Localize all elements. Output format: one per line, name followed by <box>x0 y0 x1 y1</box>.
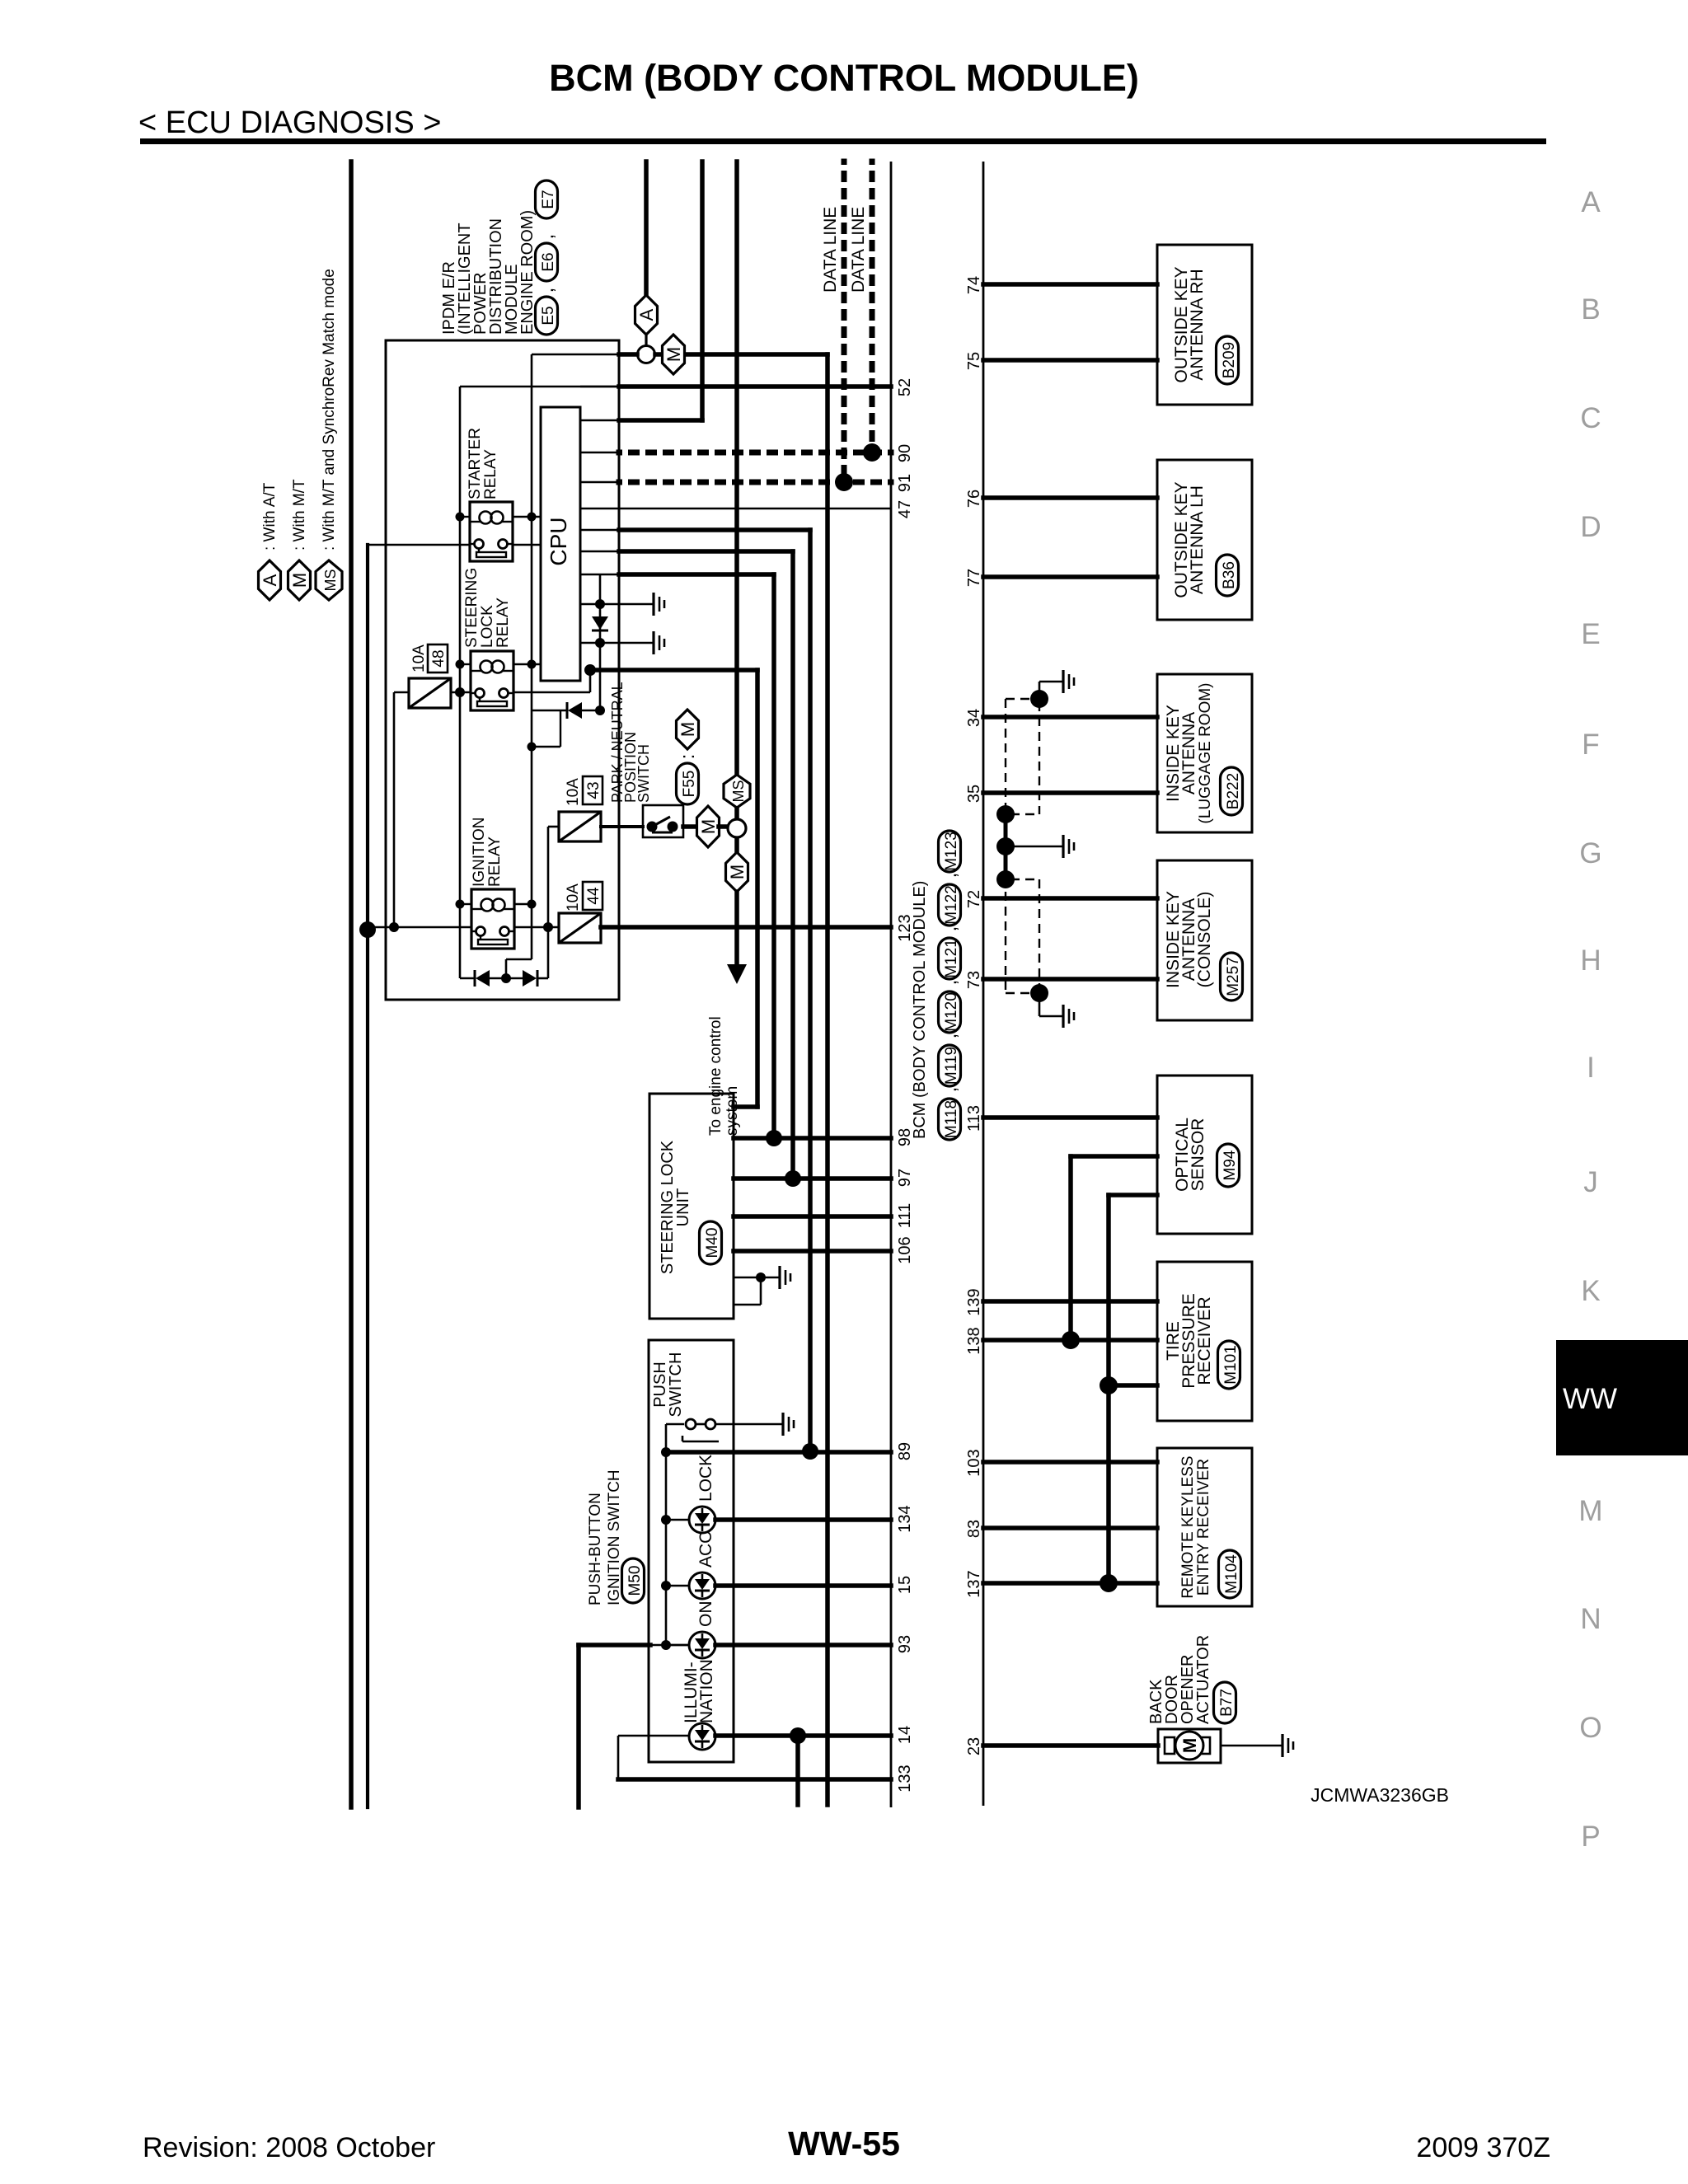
svg-text:111: 111 <box>896 1203 914 1228</box>
svg-text:M122: M122 <box>943 885 960 925</box>
svg-text:M104: M104 <box>1223 1554 1240 1594</box>
diode D1 (left-pointing) <box>476 970 490 987</box>
svg-text:48: 48 <box>430 649 448 667</box>
svg-text:ON: ON <box>696 1601 715 1628</box>
svg-text:SWITCH: SWITCH <box>667 1352 685 1418</box>
hexagon M on down-rail <box>726 852 748 892</box>
sidebar WW tab <box>1556 1340 1688 1455</box>
INSIDE KEY ANTENNA (CONSOLE) box (M257) <box>1157 860 1252 1020</box>
svg-text:E5: E5 <box>540 306 557 325</box>
fuse 48 wiring <box>394 691 409 694</box>
wire pin 77 <box>983 574 1157 579</box>
svg-text:43: 43 <box>585 781 603 799</box>
svg-text:IGNITION: IGNITION <box>471 818 488 887</box>
connector E5 <box>536 297 558 335</box>
branch rail x1004 (M) <box>825 354 830 1805</box>
svg-text:M: M <box>698 819 719 834</box>
svg-text:90: 90 <box>896 444 914 462</box>
BCM left bus <box>890 162 893 1807</box>
svg-text:D: D <box>1580 511 1601 543</box>
connector F55 : M <box>677 710 699 749</box>
push-button ignition switch box <box>649 1340 734 1762</box>
shield middle joint <box>1004 814 1008 879</box>
svg-text:PUSH-BUTTON: PUSH-BUTTON <box>587 1493 604 1605</box>
svg-text:74: 74 <box>965 276 983 294</box>
svg-text:M119: M119 <box>943 1047 960 1085</box>
svg-text:M121: M121 <box>943 939 960 978</box>
wire pin 90 (striped) <box>580 452 619 454</box>
park/neutral position switch box <box>643 805 683 837</box>
fuse43 feed rail x665 <box>547 827 550 927</box>
svg-text:RELAY: RELAY <box>495 598 512 648</box>
push switch common rail x808 <box>666 1423 684 1426</box>
BCM right bus <box>982 162 985 1806</box>
OUTSIDE KEY ANTENNA LH box (B36) <box>1157 460 1252 620</box>
svg-text:NATION: NATION <box>697 1659 716 1723</box>
svg-text:M118: M118 <box>943 1100 960 1138</box>
shield bottom ground <box>1030 984 1048 1002</box>
connector circle <box>645 335 647 346</box>
svg-text:138: 138 <box>965 1327 983 1354</box>
svg-text:N: N <box>1580 1603 1601 1635</box>
wire pin 74 <box>983 282 1157 287</box>
svg-text:ANTENNA RH: ANTENNA RH <box>1188 269 1207 380</box>
antenna shield dashed rail 2 <box>1039 702 1040 814</box>
wire pin 133 <box>618 1777 891 1782</box>
svg-text:ENTRY RECEIVER: ENTRY RECEIVER <box>1195 1459 1212 1596</box>
connector E6 <box>536 243 558 281</box>
svg-text:B209: B209 <box>1221 342 1238 378</box>
shield dashed horizontals <box>1006 698 1032 700</box>
svg-text:M120: M120 <box>943 992 960 1032</box>
svg-text:,: , <box>939 873 961 879</box>
wire pin 73 <box>983 977 1157 982</box>
svg-text:103: 103 <box>965 1449 983 1476</box>
svg-text:(LUGGAGE ROOM): (LUGGAGE ROOM) <box>1197 682 1214 823</box>
wire pin 52 <box>619 384 891 389</box>
wire pin 98 <box>734 1136 891 1141</box>
svg-text:IGNITION SWITCH: IGNITION SWITCH <box>606 1469 623 1605</box>
svg-text:,: , <box>939 980 961 986</box>
svg-text:E7: E7 <box>540 190 557 209</box>
svg-text:CPU: CPU <box>546 517 571 565</box>
svg-text:91: 91 <box>896 474 914 492</box>
svg-text:M123: M123 <box>943 832 960 871</box>
svg-text:F55: F55 <box>681 771 698 798</box>
starter relay contact row wire <box>368 544 470 546</box>
svg-text:DATA LINE: DATA LINE <box>849 207 868 293</box>
IPDM E/R box <box>386 340 619 1000</box>
steering relay contact row to x715 <box>513 691 590 694</box>
svg-text:I: I <box>1587 1052 1595 1084</box>
svg-text:,: , <box>939 1033 961 1039</box>
feed rail to park/neutral junction <box>734 162 739 776</box>
tire pressure stub <box>1109 1383 1157 1388</box>
svg-text:,: , <box>939 926 961 932</box>
svg-text:C: C <box>1580 402 1601 434</box>
svg-text:E: E <box>1581 618 1600 650</box>
svg-text:M: M <box>663 347 684 362</box>
svg-text:73: 73 <box>965 971 983 989</box>
svg-text:72: 72 <box>965 890 983 908</box>
rail x702 down <box>576 1645 581 1807</box>
wire pin 97 <box>734 1176 891 1181</box>
svg-text:M257: M257 <box>1225 957 1242 996</box>
STEERING LOCK UNIT box <box>649 1094 734 1319</box>
svg-text:35: 35 <box>965 785 983 803</box>
svg-text:M: M <box>1578 1495 1602 1527</box>
REMOTE KEYLESS ENTRY RECEIVER box (M104) <box>1157 1448 1252 1606</box>
fuse 48 feed rail x478 <box>393 692 396 927</box>
left feed rail (starter contact to pin 133 area) <box>366 545 369 1807</box>
svg-text:MS: MS <box>730 780 747 803</box>
svg-text:O: O <box>1579 1712 1601 1744</box>
svg-text:ANTENNA: ANTENNA <box>1179 712 1198 794</box>
svg-text:M94: M94 <box>1221 1150 1239 1180</box>
wire pin 134 <box>715 1517 891 1522</box>
ground tap 1 <box>580 603 654 605</box>
connector E7 <box>536 180 558 218</box>
wire pin 113 <box>983 1115 1157 1120</box>
svg-text:H: H <box>1580 944 1601 977</box>
svg-text:G: G <box>1579 837 1601 869</box>
svg-text:: With M/T: : With M/T <box>291 479 308 551</box>
wire pin 137 <box>983 1581 1157 1586</box>
svg-text:75: 75 <box>965 352 983 370</box>
legend hexagon A : With A/T <box>259 560 281 600</box>
svg-text:DATA LINE: DATA LINE <box>821 207 840 293</box>
svg-text:LOCK: LOCK <box>696 1455 715 1502</box>
svg-text:137: 137 <box>965 1570 983 1597</box>
bundle wire 1 (y643 to x983) <box>580 529 619 532</box>
svg-text:J: J <box>1583 1166 1598 1198</box>
svg-text:SENSOR: SENSOR <box>1189 1118 1207 1192</box>
legend hexagon M : With M/T <box>288 560 311 600</box>
wire pin 14 <box>715 1733 891 1738</box>
hexagon MS below rail <box>724 775 750 808</box>
wire pin 34 <box>983 715 1157 719</box>
wire pin 111 <box>734 1214 891 1219</box>
svg-text:A: A <box>1581 186 1601 218</box>
svg-text:10A: 10A <box>565 778 582 806</box>
svg-text:SWITCH: SWITCH <box>635 744 652 803</box>
svg-text:(CONSOLE): (CONSOLE) <box>1195 892 1214 988</box>
svg-text:ENGINE ROOM): ENGINE ROOM) <box>518 210 537 335</box>
diode D2 (right-pointing) <box>523 970 537 987</box>
svg-text:76: 76 <box>965 490 983 508</box>
hexagon M on wire y430 <box>663 335 685 374</box>
svg-text:23: 23 <box>965 1737 983 1755</box>
svg-text:52: 52 <box>896 378 914 396</box>
junction dot diode row <box>501 973 511 983</box>
svg-text:JCMWA3236GB: JCMWA3236GB <box>1311 1784 1449 1806</box>
svg-text:Revision: 2008 October: Revision: 2008 October <box>143 2132 435 2163</box>
wire pin 139 <box>983 1299 1157 1304</box>
fuse 43 wiring <box>548 826 559 828</box>
wire pin 138 <box>983 1338 1157 1343</box>
connector M50 <box>622 1558 645 1603</box>
svg-text:M101: M101 <box>1222 1345 1240 1385</box>
svg-text:A: A <box>636 308 657 321</box>
wire pin 106 <box>734 1249 891 1254</box>
wire pin 89 <box>666 1450 891 1455</box>
svg-text:K: K <box>1581 1275 1600 1307</box>
steering relay coil terminals <box>460 663 471 665</box>
wire pin 35 <box>983 790 1157 795</box>
svg-text:WW: WW <box>1563 1383 1617 1415</box>
hexagon M (park switch) <box>697 806 720 847</box>
svg-text:M40: M40 <box>704 1228 721 1258</box>
relay enclosure top rail / wire to pin 52 <box>460 386 619 388</box>
motor ground <box>1221 1745 1282 1747</box>
shield top ground <box>1030 690 1048 708</box>
diode row at enclosure bottom <box>460 977 475 980</box>
svg-text:44: 44 <box>585 887 603 905</box>
legend hexagon MS : With M/T and SynchroRev Match mode <box>316 560 342 600</box>
svg-text:To engine control: To engine control <box>707 1016 724 1136</box>
diode D4 (left-pointing) row y862 <box>532 710 567 712</box>
svg-text:LOCK: LOCK <box>479 605 496 648</box>
svg-text:REMOTE KEYLESS: REMOTE KEYLESS <box>1179 1455 1197 1598</box>
svg-text:WW-55: WW-55 <box>788 2125 900 2163</box>
svg-text:F: F <box>1582 729 1599 761</box>
ground tap 2 <box>580 642 654 644</box>
wire from IPDM to M-branch (y430) <box>619 352 637 357</box>
svg-text:14: 14 <box>896 1726 914 1744</box>
bundle wire 3 (y697 to x939) <box>580 574 619 576</box>
svg-text:: With M/T and SynchroRev Matc: : With M/T and SynchroRev Match mode <box>321 269 338 551</box>
svg-text:10A: 10A <box>565 883 582 912</box>
wire pin 93 <box>579 1643 650 1647</box>
push switch contacts <box>686 1419 696 1429</box>
wire pin 83 <box>983 1526 1157 1530</box>
svg-text:89: 89 <box>896 1442 914 1460</box>
starter relay coil terminals <box>460 516 470 518</box>
svg-text:RECEIVER: RECEIVER <box>1195 1296 1214 1385</box>
enclosure bottom jog to diode row <box>506 958 532 961</box>
inner wire y430 to IPDM right edge <box>532 354 619 356</box>
svg-text:< ECU DIAGNOSIS >: < ECU DIAGNOSIS > <box>138 105 441 140</box>
steering relay aux elbow <box>532 746 560 748</box>
hexagon A (With A/T) <box>635 295 658 335</box>
relay enclosure left rail <box>459 387 462 978</box>
battery feed rail A <box>644 162 649 295</box>
svg-text:STARTER: STARTER <box>467 428 484 499</box>
svg-text:A: A <box>260 574 280 586</box>
left page border rail <box>349 162 354 1807</box>
INSIDE KEY ANTENNA (LUGGAGE ROOM) box (B222) <box>1157 674 1252 832</box>
svg-text:B222: B222 <box>1225 773 1242 809</box>
wire pin 23 <box>983 1743 1158 1748</box>
svg-text:ACC: ACC <box>696 1531 715 1568</box>
wire pin 47 <box>580 508 891 510</box>
svg-text:ACTUATOR: ACTUATOR <box>1194 1635 1212 1724</box>
CPU box <box>541 407 580 681</box>
svg-text:UNIT: UNIT <box>674 1188 692 1227</box>
optical sensor stub 2 <box>1109 1193 1157 1197</box>
svg-text:M: M <box>289 573 310 588</box>
svg-text:M: M <box>678 722 698 737</box>
wire pin 72 <box>983 896 1157 901</box>
svg-text:97: 97 <box>896 1169 914 1187</box>
svg-text:P: P <box>1581 1821 1600 1853</box>
rail x968 down <box>795 1736 800 1805</box>
svg-text:: With A/T: : With A/T <box>261 482 279 551</box>
svg-text:RELAY: RELAY <box>486 837 504 887</box>
antenna shield dashed rail 1 <box>1005 699 1006 993</box>
OUTSIDE KEY ANTENNA RH box (B209) <box>1157 245 1252 405</box>
ground diode cluster rail x728 <box>599 574 602 710</box>
svg-text:2009 370Z: 2009 370Z <box>1416 2132 1550 2163</box>
diode D3 (down) <box>592 616 608 630</box>
OPTICAL SENSOR box (M94) <box>1157 1076 1252 1234</box>
svg-text:B: B <box>1581 293 1600 326</box>
feed rail to CPU (corner at y510) <box>700 162 705 420</box>
svg-text:34: 34 <box>965 709 983 727</box>
steering lock unit grounds <box>734 1277 761 1279</box>
svg-text:47: 47 <box>896 500 914 518</box>
switch output wire <box>683 824 697 829</box>
wire pin 103 <box>983 1460 1157 1465</box>
svg-text:B36: B36 <box>1221 561 1238 589</box>
svg-text:ANTENNA LH: ANTENNA LH <box>1188 485 1207 594</box>
svg-text:15: 15 <box>896 1576 914 1594</box>
BCM connectors M118-M123 <box>939 1099 961 1140</box>
DATA LINE 1 (striped) <box>842 162 847 482</box>
svg-text:RELAY: RELAY <box>482 449 499 499</box>
svg-text:139: 139 <box>965 1288 983 1315</box>
svg-text:133: 133 <box>896 1765 914 1792</box>
TIRE PRESSURE RECEIVER box (M101) <box>1157 1262 1252 1421</box>
illumination to wire 133 <box>618 1735 689 1737</box>
optical sensor stub 1 <box>1071 1154 1157 1159</box>
inner feed rail x645 <box>531 354 533 959</box>
push switch to ground <box>715 1423 783 1426</box>
svg-text:106: 106 <box>896 1236 914 1263</box>
svg-text:MS: MS <box>322 569 339 592</box>
svg-text:134: 134 <box>896 1505 914 1532</box>
svg-text:B77: B77 <box>1218 1689 1236 1717</box>
svg-text:98: 98 <box>896 1128 914 1146</box>
wire pin 91 (striped) <box>580 481 619 484</box>
thick wire y813 to steering lock unit <box>590 668 757 673</box>
svg-text:M: M <box>1179 1738 1200 1753</box>
CPU stub y510 <box>580 419 619 422</box>
wire 123 row <box>368 926 471 929</box>
wire pin 15 <box>715 1583 891 1588</box>
svg-text:113: 113 <box>965 1105 983 1132</box>
svg-text:BCM (BODY CONTROL MODULE): BCM (BODY CONTROL MODULE) <box>549 57 1139 99</box>
line to engine control arrow <box>734 892 739 966</box>
wire pin 75 <box>983 358 1157 363</box>
svg-text:93: 93 <box>896 1635 914 1653</box>
svg-text:E6: E6 <box>540 252 557 271</box>
svg-text:STEERING: STEERING <box>463 568 481 648</box>
back door opener motor <box>1158 1729 1221 1763</box>
svg-text:M: M <box>727 865 748 879</box>
svg-text:,: , <box>939 1087 961 1093</box>
svg-text:,: , <box>536 234 558 240</box>
bundle wire 2 (y669 to x962) <box>580 551 619 553</box>
DATA LINE 2 (striped) <box>870 162 875 452</box>
wire pin 76 <box>983 495 1157 500</box>
ignition relay coil terminals <box>460 903 471 905</box>
svg-text:M50: M50 <box>626 1566 644 1596</box>
svg-text:77: 77 <box>965 569 983 587</box>
svg-text:BCM (BODY CONTROL MODULE): BCM (BODY CONTROL MODULE) <box>911 881 929 1139</box>
svg-text:83: 83 <box>965 1520 983 1538</box>
svg-text:10A: 10A <box>410 644 428 673</box>
svg-text:,: , <box>536 288 558 293</box>
junction circle <box>734 808 739 820</box>
svg-text::: : <box>677 754 699 760</box>
